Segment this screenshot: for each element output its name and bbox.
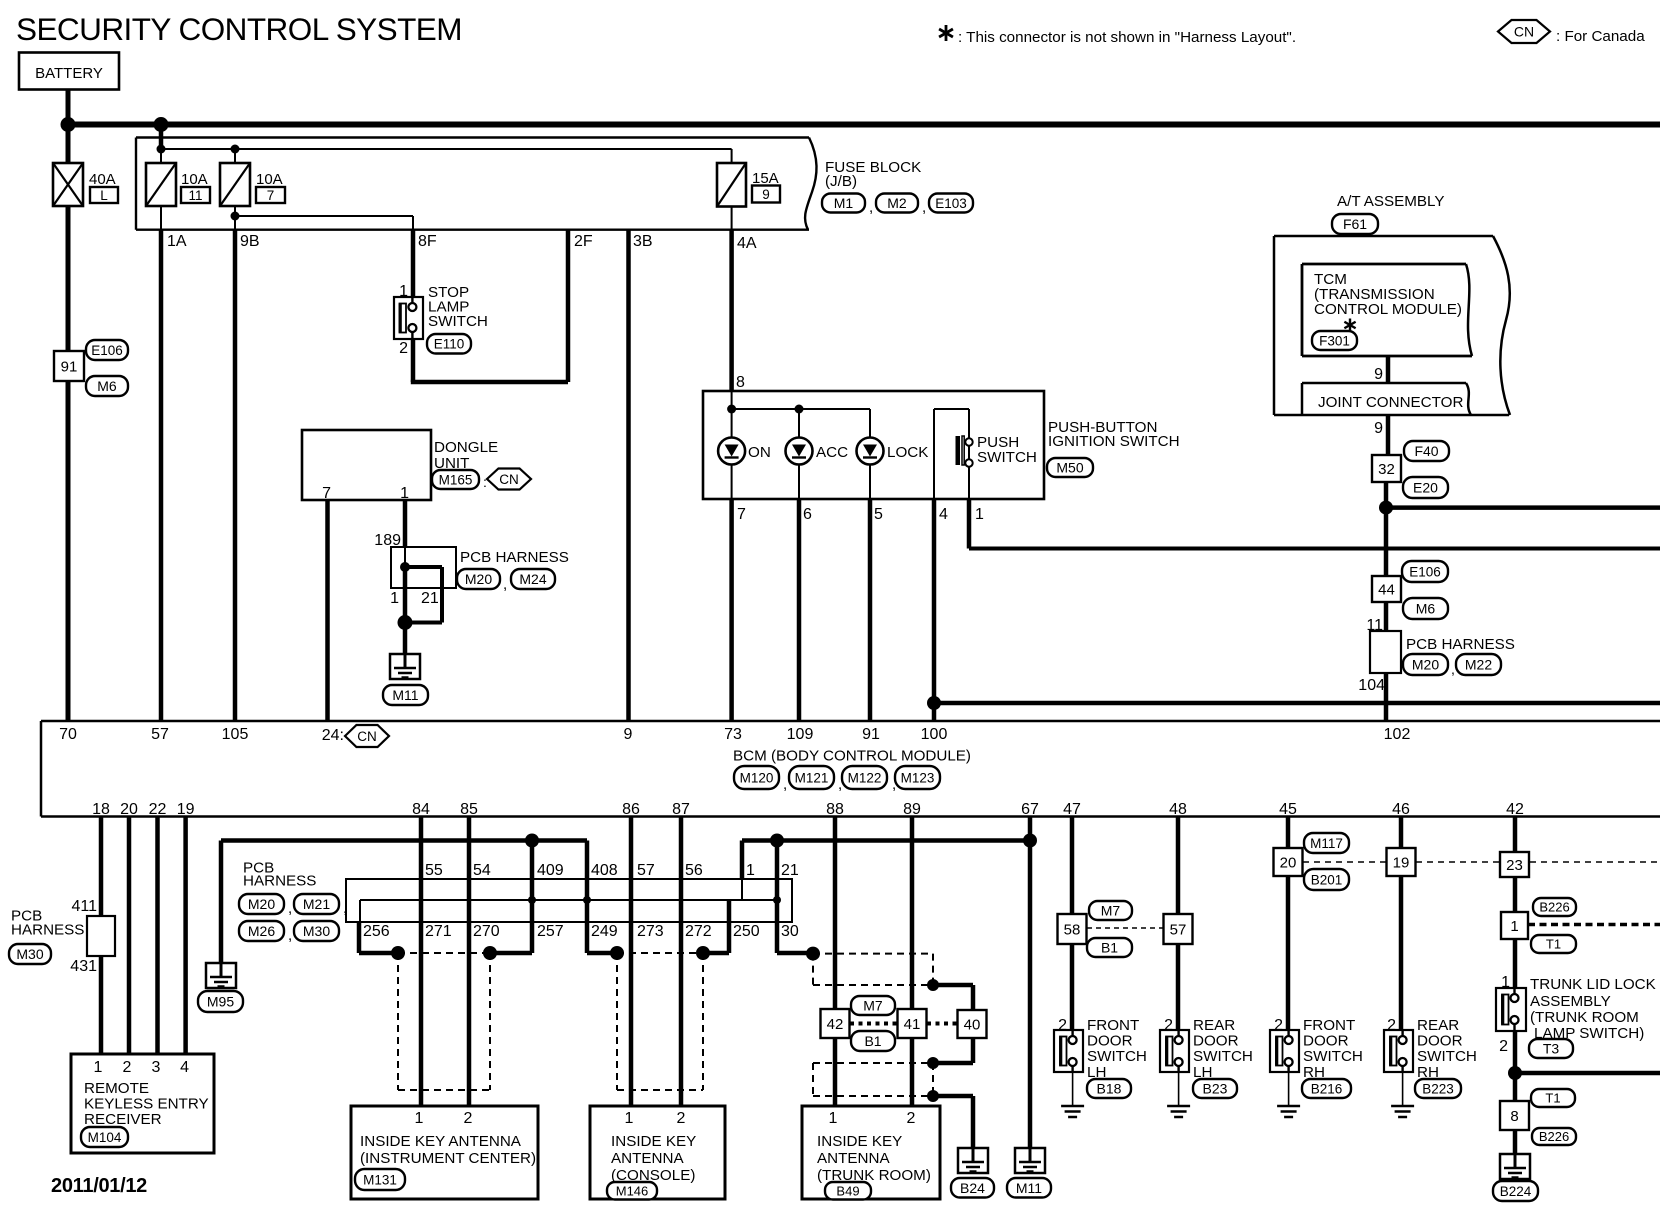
svg-text:CN: CN — [1514, 24, 1534, 40]
svg-text:85: 85 — [460, 801, 478, 818]
svg-text:23: 23 — [1506, 857, 1523, 874]
svg-text:4: 4 — [939, 506, 948, 523]
svg-text:9B: 9B — [240, 233, 260, 250]
svg-text:M146: M146 — [616, 1183, 649, 1198]
svg-text:INSIDE KEY ANTENNA: INSIDE KEY ANTENNA — [360, 1133, 522, 1150]
svg-text:3: 3 — [152, 1059, 161, 1076]
svg-text:B18: B18 — [1097, 1081, 1122, 1097]
svg-text:REAR: REAR — [1417, 1017, 1459, 1034]
svg-text:,: , — [288, 900, 292, 917]
svg-text:1: 1 — [400, 485, 409, 502]
svg-text:B223: B223 — [1422, 1081, 1454, 1096]
svg-text:22: 22 — [149, 801, 167, 818]
svg-text:87: 87 — [672, 801, 690, 818]
svg-text:FRONT: FRONT — [1087, 1017, 1139, 1034]
svg-text:B226: B226 — [1539, 900, 1569, 915]
svg-text:88: 88 — [826, 801, 844, 818]
svg-text:DOOR: DOOR — [1087, 1033, 1133, 1050]
svg-text:70: 70 — [59, 726, 77, 743]
svg-text:E103: E103 — [935, 196, 967, 211]
svg-text:18: 18 — [92, 801, 110, 818]
svg-text:4: 4 — [180, 1059, 189, 1076]
svg-text:SWITCH: SWITCH — [1087, 1048, 1147, 1065]
svg-text:3B: 3B — [633, 233, 653, 250]
svg-text:9: 9 — [1374, 366, 1383, 383]
svg-text:24:: 24: — [322, 727, 344, 744]
svg-text:47: 47 — [1063, 801, 1081, 818]
svg-text:86: 86 — [622, 801, 640, 818]
svg-text:B1: B1 — [1101, 940, 1118, 956]
svg-text:9: 9 — [624, 726, 633, 743]
svg-text:IGNITION SWITCH: IGNITION SWITCH — [1048, 433, 1180, 450]
svg-text:M95: M95 — [207, 994, 234, 1010]
svg-text:HARNESS: HARNESS — [11, 922, 84, 939]
svg-text:2: 2 — [1499, 1038, 1508, 1055]
svg-text:ASSEMBLY: ASSEMBLY — [1530, 993, 1611, 1010]
svg-text:JOINT CONNECTOR: JOINT CONNECTOR — [1318, 394, 1463, 411]
svg-text:TRUNK LID LOCK: TRUNK LID LOCK — [1530, 976, 1656, 993]
svg-text:M50: M50 — [1056, 460, 1083, 476]
svg-text:KEYLESS ENTRY: KEYLESS ENTRY — [84, 1096, 209, 1113]
svg-text:B24: B24 — [960, 1180, 985, 1196]
svg-text:409: 409 — [537, 862, 564, 879]
svg-text:E106: E106 — [91, 343, 123, 358]
svg-text:ACC: ACC — [816, 444, 848, 461]
svg-text:CN: CN — [499, 472, 519, 487]
svg-text:(INSTRUMENT CENTER): (INSTRUMENT CENTER) — [360, 1150, 536, 1167]
svg-text:M11: M11 — [1016, 1180, 1042, 1196]
svg-text:271: 271 — [425, 923, 452, 940]
svg-text:T3: T3 — [1543, 1041, 1560, 1057]
svg-text:B201: B201 — [1311, 872, 1343, 887]
svg-text:M20: M20 — [248, 896, 275, 912]
svg-text:M1: M1 — [834, 195, 854, 211]
svg-text:256: 256 — [363, 923, 390, 940]
svg-text:1: 1 — [415, 1110, 424, 1127]
svg-text:DOOR: DOOR — [1193, 1033, 1239, 1050]
svg-text:2F: 2F — [574, 233, 593, 250]
svg-text:DONGLE: DONGLE — [434, 439, 498, 456]
svg-text:M26: M26 — [248, 923, 275, 939]
svg-text:67: 67 — [1021, 801, 1039, 818]
svg-text:M117: M117 — [1310, 836, 1343, 851]
svg-text:M120: M120 — [740, 770, 774, 785]
svg-text:9: 9 — [762, 187, 770, 202]
svg-text:2011/01/12: 2011/01/12 — [51, 1175, 147, 1197]
svg-text:INSIDE KEY: INSIDE KEY — [611, 1133, 696, 1150]
svg-text:M11: M11 — [392, 687, 418, 703]
svg-text:B226: B226 — [1539, 1129, 1569, 1144]
svg-text:91: 91 — [862, 726, 880, 743]
svg-text:RECEIVER: RECEIVER — [84, 1111, 162, 1128]
svg-text:PCB HARNESS: PCB HARNESS — [1406, 636, 1515, 653]
svg-text:(J/B): (J/B) — [825, 173, 857, 190]
svg-text:,: , — [1451, 661, 1455, 677]
svg-text:M20: M20 — [465, 571, 492, 587]
svg-text:SWITCH: SWITCH — [428, 313, 488, 330]
svg-text:57: 57 — [151, 726, 169, 743]
svg-text:54: 54 — [473, 862, 491, 879]
svg-text:250: 250 — [733, 923, 760, 940]
svg-text:ON: ON — [748, 444, 771, 461]
svg-text:SWITCH: SWITCH — [1417, 1048, 1477, 1065]
svg-text:LOCK: LOCK — [887, 444, 928, 461]
svg-text:M30: M30 — [303, 923, 330, 939]
svg-text:257: 257 — [537, 923, 564, 940]
svg-text:M7: M7 — [863, 998, 883, 1014]
svg-text:B224: B224 — [1500, 1184, 1532, 1199]
svg-text:CONTROL MODULE): CONTROL MODULE) — [1314, 301, 1462, 318]
svg-text:109: 109 — [787, 726, 814, 743]
svg-text:57: 57 — [1170, 921, 1187, 938]
svg-text:M131: M131 — [363, 1172, 397, 1187]
svg-text:8: 8 — [736, 374, 745, 391]
svg-text:2: 2 — [464, 1110, 473, 1127]
svg-text:T1: T1 — [1545, 1091, 1560, 1106]
svg-text:M22: M22 — [1465, 657, 1492, 673]
svg-text:L: L — [100, 188, 108, 203]
svg-text:20: 20 — [1280, 854, 1297, 871]
svg-text:M6: M6 — [1416, 601, 1436, 617]
svg-text:M122: M122 — [848, 770, 882, 785]
svg-text:,: , — [343, 900, 347, 917]
svg-text:REMOTE: REMOTE — [84, 1080, 149, 1097]
svg-text:M7: M7 — [1101, 903, 1121, 919]
svg-text:42: 42 — [827, 1016, 844, 1033]
svg-text:40A: 40A — [89, 171, 116, 188]
svg-text:8: 8 — [1510, 1108, 1518, 1125]
svg-text:1: 1 — [94, 1059, 103, 1076]
svg-text:DOOR: DOOR — [1417, 1033, 1463, 1050]
svg-text:SWITCH: SWITCH — [1303, 1048, 1363, 1065]
svg-text:F40: F40 — [1414, 443, 1438, 459]
svg-text:BCM (BODY CONTROL MODULE): BCM (BODY CONTROL MODULE) — [733, 748, 971, 765]
svg-text:249: 249 — [591, 923, 618, 940]
svg-text:89: 89 — [903, 801, 921, 818]
svg-text:2: 2 — [677, 1110, 686, 1127]
svg-text:M6: M6 — [97, 378, 117, 394]
svg-text:M2: M2 — [887, 195, 907, 211]
svg-text:DOOR: DOOR — [1303, 1033, 1349, 1050]
svg-text:6: 6 — [803, 506, 812, 523]
svg-text:7: 7 — [267, 188, 275, 203]
svg-text:,: , — [869, 199, 873, 216]
svg-text:E20: E20 — [1413, 480, 1438, 496]
svg-text:,: , — [503, 576, 507, 593]
svg-text:PCB HARNESS: PCB HARNESS — [460, 549, 569, 566]
svg-text:42: 42 — [1506, 801, 1524, 818]
svg-text:8F: 8F — [418, 233, 437, 250]
svg-text:272: 272 — [685, 923, 712, 940]
svg-text:,: , — [288, 927, 292, 944]
svg-text:2: 2 — [907, 1110, 916, 1127]
svg-text:5: 5 — [874, 506, 883, 523]
svg-text:BATTERY: BATTERY — [35, 65, 103, 82]
svg-text:20: 20 — [120, 801, 138, 818]
svg-text:M24: M24 — [519, 571, 546, 587]
svg-text:408: 408 — [591, 862, 618, 879]
svg-text:41: 41 — [904, 1016, 921, 1033]
svg-text:19: 19 — [177, 801, 195, 818]
svg-text:M123: M123 — [901, 770, 935, 785]
svg-text:,: , — [922, 199, 926, 216]
svg-text:M21: M21 — [303, 896, 330, 912]
svg-text:1: 1 — [1510, 918, 1518, 935]
svg-text:102: 102 — [1384, 726, 1411, 743]
svg-text:270: 270 — [473, 923, 500, 940]
svg-text:105: 105 — [222, 726, 249, 743]
svg-text:9: 9 — [1374, 420, 1383, 437]
svg-text:55: 55 — [425, 862, 443, 879]
svg-text:21: 21 — [781, 862, 799, 879]
svg-text:F301: F301 — [1319, 333, 1350, 348]
svg-text:INSIDE KEY: INSIDE KEY — [817, 1133, 902, 1150]
svg-text:7: 7 — [737, 506, 746, 523]
svg-text:1A: 1A — [167, 233, 187, 250]
svg-text:M20: M20 — [1412, 657, 1439, 673]
svg-text:B216: B216 — [1311, 1081, 1343, 1096]
svg-text:REAR: REAR — [1193, 1017, 1235, 1034]
svg-text:1: 1 — [746, 862, 755, 879]
svg-text:T1: T1 — [1546, 937, 1561, 952]
svg-text:2: 2 — [399, 340, 408, 357]
svg-text:431: 431 — [70, 958, 97, 975]
svg-text:10A: 10A — [181, 171, 208, 188]
svg-text:11: 11 — [188, 188, 202, 203]
svg-text:M165: M165 — [439, 472, 473, 487]
svg-text:7: 7 — [322, 485, 331, 502]
svg-text:30: 30 — [781, 923, 799, 940]
svg-text:84: 84 — [412, 801, 430, 818]
svg-text:73: 73 — [724, 726, 742, 743]
svg-text:E106: E106 — [1409, 564, 1441, 579]
svg-text:SWITCH: SWITCH — [977, 449, 1037, 466]
svg-text:SWITCH: SWITCH — [1193, 1048, 1253, 1065]
svg-text:1: 1 — [829, 1110, 838, 1127]
svg-text:: This connector is not shown: : This connector is not shown in "Harnes… — [958, 29, 1296, 46]
svg-text:HARNESS: HARNESS — [243, 873, 316, 890]
svg-text:1: 1 — [625, 1110, 634, 1127]
svg-text:19: 19 — [1393, 854, 1410, 871]
svg-text:32: 32 — [1378, 461, 1395, 478]
svg-text:ANTENNA: ANTENNA — [817, 1150, 890, 1167]
svg-text:104: 104 — [1358, 677, 1385, 694]
svg-text:M30: M30 — [16, 946, 43, 962]
svg-text:44: 44 — [1378, 581, 1395, 598]
svg-text:B49: B49 — [836, 1183, 859, 1198]
svg-text:91: 91 — [61, 358, 78, 375]
svg-text:46: 46 — [1392, 801, 1410, 818]
svg-text:4A: 4A — [737, 235, 757, 252]
svg-text:45: 45 — [1279, 801, 1297, 818]
svg-text:48: 48 — [1169, 801, 1187, 818]
svg-text:58: 58 — [1064, 921, 1081, 938]
svg-text:1: 1 — [390, 590, 399, 607]
svg-text:411: 411 — [71, 898, 97, 915]
svg-text:21: 21 — [421, 590, 439, 607]
svg-text:40: 40 — [964, 1016, 981, 1033]
svg-text:: For Canada: : For Canada — [1556, 28, 1645, 45]
svg-text:57: 57 — [637, 862, 655, 879]
svg-text:CN: CN — [357, 729, 377, 744]
svg-text:(TRUNK ROOM: (TRUNK ROOM — [1530, 1009, 1639, 1026]
svg-text:2: 2 — [123, 1059, 132, 1076]
svg-text:B1: B1 — [864, 1033, 881, 1049]
svg-text:273: 273 — [637, 923, 664, 940]
svg-text:E110: E110 — [434, 337, 465, 352]
svg-text:B23: B23 — [1203, 1081, 1228, 1097]
svg-text:56: 56 — [685, 862, 703, 879]
svg-text:100: 100 — [921, 726, 948, 743]
svg-text:,: , — [783, 776, 787, 793]
svg-text:M121: M121 — [795, 770, 829, 785]
svg-text::: : — [483, 474, 487, 490]
svg-text:SECURITY CONTROL SYSTEM: SECURITY CONTROL SYSTEM — [16, 11, 462, 47]
svg-text:F61: F61 — [1343, 216, 1367, 232]
svg-text:A/T ASSEMBLY: A/T ASSEMBLY — [1337, 193, 1444, 210]
svg-text:10A: 10A — [256, 171, 283, 188]
svg-text:FRONT: FRONT — [1303, 1017, 1355, 1034]
svg-text:M104: M104 — [88, 1130, 122, 1145]
svg-text:1: 1 — [975, 506, 984, 523]
svg-text:ANTENNA: ANTENNA — [611, 1150, 684, 1167]
